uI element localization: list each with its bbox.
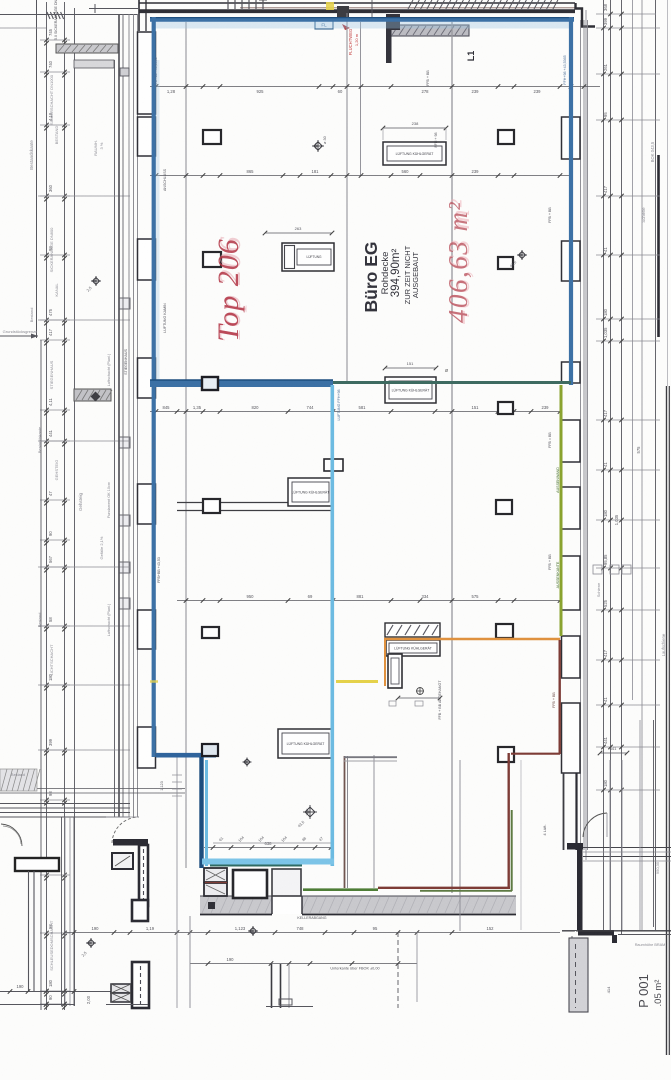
lift shaft rect [233, 870, 267, 898]
grey top edge lower room [344, 756, 397, 758]
navy vertical to lightblue room [199, 757, 203, 868]
dimension chain y=86 [150, 86, 600, 88]
teal divider right part [333, 381, 571, 384]
left main wall pilasters [138, 32, 156, 114]
existing building wall lines (left) [118, 14, 120, 817]
green companion vertical bottom-right [511, 810, 513, 891]
orange vertical [384, 639, 386, 686]
small wall piece top-left [56, 44, 118, 53]
bottom-left dimension chains [0, 991, 130, 993]
luftung box B6 [278, 729, 333, 758]
hatch strokes above wall right [408, 0, 413, 9]
yellow touch at left wall [150, 680, 158, 683]
blue divider thick [150, 379, 333, 387]
door arc right bottom [583, 813, 607, 837]
hatched asphalt patch lower-left [0, 769, 37, 791]
right margin thick rail [657, 155, 660, 337]
maroon right vertical [559, 640, 561, 754]
right margin far dark pair [666, 386, 668, 1055]
right wall lower black edge [575, 773, 577, 850]
core shaft boxes [204, 868, 227, 882]
dimension chain y=175 [150, 175, 571, 177]
marks near x=177 lower [172, 774, 182, 776]
beam band with hatch (top, L1) [390, 25, 469, 36]
luftung box B1 [383, 142, 446, 165]
dimension chain y=963 [190, 963, 417, 965]
cyan bottom edge of room [202, 859, 334, 865]
lower-mid dashed verticals [397, 932, 399, 1008]
orange horizontal [384, 638, 560, 641]
cyan lightblue room left edge [205, 760, 208, 866]
green companion bottom horizontal [420, 890, 512, 892]
right main wall pilasters [562, 117, 581, 159]
red handwriting 406,63 m2 [445, 198, 476, 324]
navy step horizontal [156, 753, 216, 758]
chain inside lightblue room [204, 847, 334, 849]
dark column on blue divider [202, 377, 218, 390]
right bottom inner verticals [609, 760, 611, 930]
441 dim right [600, 752, 627, 754]
comb ticks above wall [227, 0, 229, 9]
wall stub with hatch (left mid) [74, 389, 111, 401]
right bottom stepped black wall [567, 843, 583, 850]
dimension chain y=411 [150, 411, 561, 413]
extra left chain line lower [40, 340, 42, 1010]
top wall double line [139, 2, 575, 4]
maroon step [511, 753, 560, 755]
door arcs lower-left [1, 824, 22, 846]
door arc stair core [112, 817, 139, 843]
right main wall lines [580, 20, 582, 850]
interior vertical grid lines [185, 22, 187, 868]
blue outline: top edge [150, 17, 574, 22]
dense tick cluster top-left [47, 12, 50, 19]
black L-wall top [386, 14, 400, 30]
columns grid [203, 130, 221, 144]
luftung cluster B5 [385, 623, 440, 637]
benchmark symbol near blue corner [244, 759, 250, 765]
property boundary line with arrow (left) [36, 0, 38, 338]
luftung box B2 [282, 243, 334, 271]
bottom wall grey band [200, 896, 516, 914]
green right vertical [560, 385, 563, 636]
room label Buro EG block [361, 242, 381, 313]
stair core left landing box [112, 853, 133, 869]
benchmark symbol mid room [518, 251, 525, 258]
black beam rect bottom-left [15, 858, 59, 871]
small box on wall line [120, 68, 129, 76]
stair core thick walls [113, 839, 148, 846]
luftung box B3 [385, 377, 436, 403]
lower-mid small box [279, 999, 292, 1005]
cyan vertical divider [330, 385, 334, 866]
light blue haze under top wall [155, 22, 570, 29]
dark column at blue corner [202, 744, 218, 756]
lower-left area: crossing horizontals [0, 788, 185, 790]
grey/maroon left wall of lower room [344, 756, 346, 888]
benchmark symbol upper [314, 142, 322, 150]
mid core rect [272, 869, 301, 896]
benchmark symbol mid-left lower [249, 927, 256, 934]
green bottom horizontal [303, 888, 378, 891]
stair core lower bar [132, 962, 149, 1008]
dimension chain y=932 [64, 932, 560, 934]
small dark square in band [208, 902, 215, 909]
blue outline: left edge [152, 17, 156, 757]
left dimension chain lines [46, 2, 48, 1010]
grey band hatch [202, 897, 209, 913]
luftung box B4 [288, 478, 333, 506]
sidewalk strip (Gehsteig) [74, 8, 76, 1006]
benchmark symbol bottom-left [87, 939, 94, 946]
lower-mid wall pair [271, 964, 273, 1008]
small boxes on wall edge [119, 298, 130, 309]
maroon bottom horizontal [378, 887, 510, 889]
right margin small label boxes [593, 565, 602, 574]
right wall inner dark line lower [563, 773, 565, 850]
red handwriting Top 206 [212, 236, 247, 343]
top-right wall step [576, 3, 596, 27]
right bottom grey strip [569, 938, 588, 1012]
top centre cluster: dark box, yellow mark, blue label, red notes [326, 2, 334, 10]
benchmark symbol left strip [92, 277, 99, 284]
small shaft boxes with X [111, 984, 131, 993]
dimension chain y=600 [177, 600, 561, 602]
right margin vertical dimension lines [585, 10, 587, 860]
yellow horizontal [336, 680, 378, 683]
right bottom dashed vertical [575, 850, 577, 1008]
right margin tick clusters [596, 27, 660, 29]
right bottom horizontals [583, 847, 671, 849]
interior partition wall upper-left room [177, 502, 334, 504]
benchmark symbol near stair core [305, 807, 315, 817]
wall below beam [28, 871, 30, 991]
blue outline: right edge [569, 17, 573, 385]
top-left corner wall [138, 0, 140, 31]
maroon inner vertical [508, 753, 510, 888]
